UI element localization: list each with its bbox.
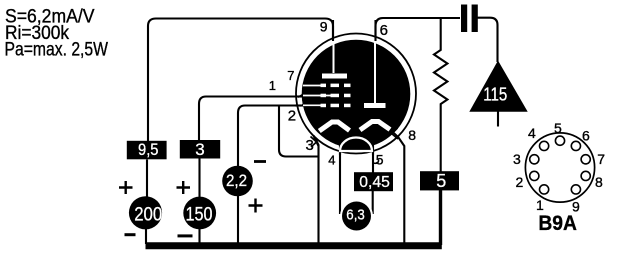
svg-text:2: 2: [288, 108, 296, 125]
svg-text:9,5: 9,5: [138, 140, 159, 159]
anode lead pin6 (white, inside tube): [374, 41, 376, 103]
svg-text:8: 8: [408, 127, 416, 143]
svg-text:200: 200: [134, 204, 162, 225]
wire cathode pin3 crossing envelope ring: [314, 136, 319, 147]
wire screen chain between I-box and V-circle: [198, 159, 200, 199]
svg-text:5: 5: [376, 152, 384, 168]
tube envelope U1 (outer circle): [296, 34, 416, 154]
ground bus bar: [146, 242, 442, 249]
wire heater pin4 down to 6,3 source: [339, 141, 341, 214]
grid dashes row 2: [321, 94, 327, 98]
anode lead pin9 (white, inside tube): [333, 41, 335, 73]
wire output stub below triangle: [497, 111, 499, 127]
svg-text:150: 150: [186, 204, 213, 225]
current box 9,5: [127, 141, 167, 160]
grid dashes row 3: [321, 104, 327, 108]
grid leads (white, inside tube): [303, 86, 331, 106]
svg-text:7: 7: [597, 151, 605, 167]
svg-text:9: 9: [320, 19, 328, 35]
output gain triangle 115: [469, 61, 527, 112]
anode bar section 1: [322, 74, 347, 79]
B9A pin 1: [540, 185, 549, 194]
B9A pin 2: [530, 171, 539, 180]
svg-text:6: 6: [582, 128, 590, 144]
wire grid pin1 net (to screen chain): [199, 97, 306, 141]
plus sign for 200: [119, 181, 133, 194]
wire supply chain 1 to ground bus: [145, 229, 147, 244]
plus sign for 2,2: [249, 199, 263, 213]
capacitor C coupling: right plate: [472, 5, 478, 33]
wire resistor bottom I-box to ground bus (thick): [439, 190, 442, 245]
battery circle 150: [183, 197, 216, 230]
wire grid pin2 crossing envelope ring: [295, 104, 308, 106]
svg-text:B9A: B9A: [538, 212, 577, 235]
svg-text:6,3: 6,3: [346, 207, 365, 224]
svg-text:4: 4: [528, 125, 536, 141]
svg-text:2: 2: [516, 174, 524, 190]
wire cathode pin3 to ground bus: [315, 138, 319, 244]
B9A pin 5: [555, 136, 564, 145]
svg-text:7: 7: [287, 68, 294, 83]
heater dome: [340, 138, 372, 152]
grid dashes row 1: [321, 84, 327, 88]
wire anode pin6 to coupling capacitor: [376, 18, 461, 42]
battery circle 2,2: [222, 166, 253, 197]
svg-text:3: 3: [306, 137, 314, 154]
hook pin3 connection: [311, 137, 317, 148]
svg-text:4: 4: [328, 153, 335, 168]
wire 0,45 box to 6,3 source: [372, 191, 374, 214]
svg-text:1: 1: [269, 78, 276, 93]
wire supply chain 1 between I-box and V-circle: [146, 160, 148, 198]
resistor R (anode load): [434, 18, 447, 172]
B9A pin 4: [540, 141, 549, 150]
wire anode pin9 to supply chain (top-left): [148, 19, 333, 142]
wire screen chain to ground bus: [198, 229, 200, 244]
svg-text:0,45: 0,45: [359, 174, 390, 191]
svg-text:115: 115: [483, 85, 507, 105]
hook pin7 connection: [298, 88, 304, 98]
svg-text:Pa=max. 2,5W: Pa=max. 2,5W: [5, 40, 109, 61]
svg-text:5: 5: [436, 171, 446, 191]
tube internal black disc: [302, 40, 411, 149]
B9A pin 7: [581, 155, 590, 164]
svg-text:3: 3: [195, 140, 204, 159]
battery circle 200: [129, 196, 162, 229]
minus sign for 150: [178, 234, 193, 237]
svg-text:2,2: 2,2: [226, 172, 247, 190]
wire heater pin5 down into I-box 0,45: [372, 150, 374, 173]
wire grid pin2 net: [238, 106, 306, 167]
current box 5: [420, 171, 459, 190]
minus sign for 200: [125, 233, 136, 236]
svg-text:8: 8: [595, 174, 603, 190]
cathode chevron section 2: [360, 122, 390, 131]
wire 2,2 circle to ground bus: [237, 196, 239, 244]
plus sign for 150: [177, 181, 191, 194]
B9A pin 8: [581, 171, 590, 180]
cathode chevron section 1: [319, 122, 349, 131]
B9A pin 9: [571, 185, 580, 194]
svg-text:6: 6: [380, 22, 388, 39]
wire cathode pin8 to ground bus: [389, 129, 404, 245]
wire pin2 net branch down to cathode pin3: [279, 107, 318, 157]
hook pin5 connection: [373, 160, 379, 164]
svg-text:5: 5: [554, 120, 562, 136]
B9A pin 3: [530, 155, 539, 164]
wire pin6 lead crossing envelope: [374, 20, 376, 41]
svg-text:3: 3: [513, 151, 521, 167]
wire grid pin1 crossing envelope ring: [295, 95, 308, 97]
wire heater pin4 crossing envelope ring: [339, 140, 341, 155]
hook pin2 connection: [299, 100, 304, 106]
B9A socket outline: [525, 133, 594, 202]
wire heater pin5 crossing envelope ring: [372, 142, 374, 155]
wire cathode pin8 crossing envelope ring: [388, 128, 399, 138]
minus sign for 2,2: [254, 160, 266, 163]
anode bar section 2: [364, 103, 386, 108]
heater source circle 6,3: [340, 200, 373, 233]
hook pin8 connection: [392, 128, 399, 139]
svg-text:1: 1: [536, 197, 544, 213]
wire capacitor to output triangle: [478, 18, 498, 62]
B9A pin 6: [571, 141, 580, 150]
current box 0,45: [354, 172, 393, 191]
capacitor C coupling: left plate: [461, 5, 467, 33]
current box 3: [180, 140, 220, 159]
wire pin9 lead crossing envelope: [332, 20, 334, 41]
